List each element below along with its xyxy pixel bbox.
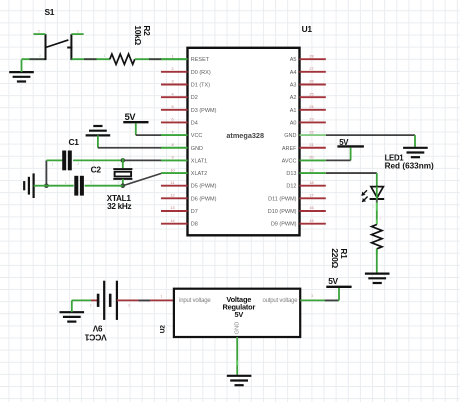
svg-text:23: 23 <box>309 118 313 122</box>
svg-text:8: 8 <box>171 143 173 147</box>
svg-text:5V: 5V <box>328 276 338 286</box>
svg-text:S1: S1 <box>45 7 55 17</box>
svg-text:1: 1 <box>372 204 374 208</box>
svg-text:13: 13 <box>170 206 174 210</box>
svg-text:2: 2 <box>380 217 382 221</box>
svg-text:25: 25 <box>309 92 313 96</box>
svg-text:GND: GND <box>234 322 240 334</box>
svg-text:5V: 5V <box>234 310 243 319</box>
svg-text:output voltage: output voltage <box>262 298 298 304</box>
svg-text:5V: 5V <box>125 112 137 122</box>
svg-text:15: 15 <box>309 219 313 223</box>
svg-text:24: 24 <box>309 105 313 109</box>
svg-text:6: 6 <box>171 118 173 122</box>
svg-text:XLAT1: XLAT1 <box>191 158 207 164</box>
svg-text:19: 19 <box>309 168 313 172</box>
svg-text:4: 4 <box>171 92 173 96</box>
svg-text:D0 (RX): D0 (RX) <box>191 70 211 76</box>
svg-text:10: 10 <box>170 168 174 172</box>
svg-text:1: 1 <box>52 163 54 167</box>
svg-text:RESET: RESET <box>191 57 210 63</box>
svg-text:U2: U2 <box>160 325 167 334</box>
svg-text:AREF: AREF <box>282 146 297 152</box>
svg-text:AVCC: AVCC <box>282 158 297 164</box>
svg-text:C2: C2 <box>91 164 102 174</box>
svg-text:5V: 5V <box>339 138 349 147</box>
svg-text:9: 9 <box>171 156 173 160</box>
svg-text:2: 2 <box>171 67 173 71</box>
svg-text:5: 5 <box>171 105 173 109</box>
svg-text:17: 17 <box>309 194 313 198</box>
svg-text:D1 (TX): D1 (TX) <box>191 83 210 89</box>
svg-text:12: 12 <box>170 194 174 198</box>
svg-text:1: 1 <box>77 29 79 33</box>
svg-text:18: 18 <box>309 181 313 185</box>
svg-text:11: 11 <box>171 181 175 185</box>
svg-text:1: 1 <box>90 304 92 308</box>
svg-text:20: 20 <box>309 156 313 160</box>
svg-text:VCC1: VCC1 <box>85 332 107 342</box>
svg-text:D11 (PWM): D11 (PWM) <box>268 196 296 202</box>
svg-text:D3 (PWM): D3 (PWM) <box>191 108 217 114</box>
svg-text:atmega328: atmega328 <box>226 131 264 140</box>
svg-text:9V: 9V <box>92 323 102 332</box>
svg-text:D6 (PWM): D6 (PWM) <box>191 196 217 202</box>
svg-text:D13: D13 <box>286 171 296 177</box>
svg-text:D5 (PWM): D5 (PWM) <box>191 184 217 190</box>
svg-text:Red (633nm): Red (633nm) <box>385 161 434 170</box>
svg-text:16: 16 <box>309 206 313 210</box>
svg-text:21: 21 <box>309 143 313 147</box>
svg-text:R210kΩ: R210kΩ <box>133 25 152 45</box>
svg-text:1: 1 <box>104 54 106 58</box>
svg-text:28: 28 <box>309 54 313 58</box>
svg-text:A0: A0 <box>290 120 297 126</box>
svg-text:1: 1 <box>161 294 163 298</box>
svg-text:A3: A3 <box>290 83 297 89</box>
svg-text:2: 2 <box>128 304 130 308</box>
svg-text:C1: C1 <box>69 137 80 147</box>
svg-text:27: 27 <box>309 67 313 71</box>
svg-text:3: 3 <box>171 80 173 84</box>
svg-text:A2: A2 <box>290 95 297 101</box>
svg-text:U1: U1 <box>302 24 313 34</box>
svg-text:32 kHz: 32 kHz <box>107 202 131 211</box>
svg-text:D7: D7 <box>191 209 198 215</box>
svg-text:VCC: VCC <box>191 133 203 139</box>
svg-text:D10 (PWM): D10 (PWM) <box>268 209 297 215</box>
svg-text:D2: D2 <box>191 95 198 101</box>
svg-text:XLAT2: XLAT2 <box>191 171 207 177</box>
svg-text:1: 1 <box>118 163 120 167</box>
svg-text:1: 1 <box>65 181 67 185</box>
svg-text:2: 2 <box>38 29 40 33</box>
svg-text:14: 14 <box>170 219 174 223</box>
svg-text:GND: GND <box>191 146 203 152</box>
svg-text:2: 2 <box>118 180 120 184</box>
svg-text:D12: D12 <box>286 184 296 190</box>
svg-text:1: 1 <box>171 54 173 58</box>
svg-text:2: 2 <box>77 162 79 166</box>
svg-text:D9 (PWM): D9 (PWM) <box>271 222 297 228</box>
svg-text:D4: D4 <box>191 120 198 126</box>
svg-text:A5: A5 <box>290 57 297 63</box>
svg-text:GND: GND <box>284 133 296 139</box>
svg-text:3: 3 <box>311 294 313 298</box>
svg-text:A4: A4 <box>290 70 297 76</box>
svg-text:26: 26 <box>309 80 313 84</box>
svg-text:2: 2 <box>90 181 92 185</box>
svg-text:2: 2 <box>39 54 41 58</box>
svg-text:7: 7 <box>171 130 173 134</box>
svg-text:D8: D8 <box>191 222 198 228</box>
svg-text:A1: A1 <box>290 108 297 114</box>
svg-text:22: 22 <box>309 130 313 134</box>
svg-text:input voltage: input voltage <box>179 298 211 304</box>
